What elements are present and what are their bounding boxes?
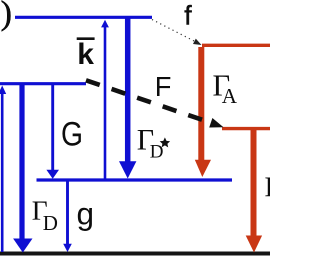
- level A* (red level right lower): [222, 127, 270, 130]
- svg-text:D: D: [43, 211, 58, 235]
- label k-bar: [77, 38, 95, 71]
- arrow GammaA (red down): [195, 47, 211, 177]
- svg-text:g: g: [77, 196, 95, 232]
- label GammaA: [213, 69, 238, 109]
- arrow red right (down to ground): [246, 130, 262, 253]
- arrow GammaD* (thick blue down): [119, 19, 136, 179]
- svg-text:f: f: [184, 1, 192, 31]
- svg-text:A: A: [222, 84, 238, 108]
- arrow G (blue down to level D*): [46, 85, 59, 179]
- arrow g (blue down to ground): [63, 181, 72, 252]
- level A-hot (red level right top): [202, 44, 270, 47]
- arrow GammaD (thick blue down): [13, 85, 32, 253]
- svg-text:F: F: [155, 71, 172, 102]
- svg-text:Γ: Γ: [265, 172, 271, 204]
- level D-pump (second blue level): [0, 82, 86, 85]
- svg-text:D: D: [150, 141, 164, 162]
- svg-text:k: k: [77, 38, 94, 71]
- svg-text:G: G: [61, 114, 83, 153]
- arrow k-bar (blue up): [101, 20, 109, 180]
- arrow F (dashed transfer): [86, 80, 224, 127]
- arrow up left (pump): [0, 86, 6, 253]
- svg-text:): ): [1, 0, 12, 32]
- arrow f (dotted transfer): [152, 20, 202, 46]
- level D* (third blue level): [37, 178, 233, 181]
- label GammaD: [32, 195, 58, 236]
- level D-hot (top blue level): [15, 16, 152, 19]
- star glyph: [160, 137, 170, 147]
- ground level: [0, 252, 270, 256]
- label GammaD*: [137, 123, 170, 162]
